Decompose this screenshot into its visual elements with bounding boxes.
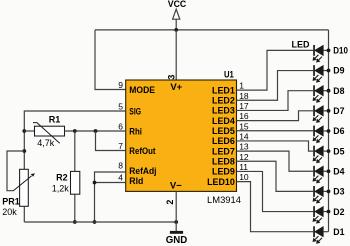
pin number 3	[167, 75, 177, 80]
IC left pin labels	[129, 85, 156, 186]
wire Rhi to RefOut (pin 7)	[96, 131, 126, 151]
wire LED anode rail	[328, 30, 330, 232]
wire LED4 pin 16 to D7	[237, 111, 314, 121]
label D1	[333, 227, 344, 237]
svg-text:D7: D7	[333, 106, 344, 116]
label PR1	[2, 197, 20, 207]
svg-text:Rld: Rld	[129, 176, 143, 186]
op-amp U1 LM3914 body	[126, 80, 237, 191]
svg-text:R2: R2	[56, 172, 68, 182]
svg-text:10: 10	[239, 172, 249, 182]
junction ground rail to V-	[174, 220, 178, 224]
svg-text:1: 1	[239, 81, 244, 91]
junction R2 to ground rail	[73, 220, 77, 224]
pin number 5	[118, 102, 123, 112]
svg-text:2: 2	[165, 200, 175, 205]
svg-text:Rhi: Rhi	[129, 126, 142, 136]
wire LED8 pin 12 to D3	[237, 161, 314, 191]
svg-text:13: 13	[239, 142, 249, 152]
svg-text:LED1: LED1	[212, 85, 235, 95]
resistor R2	[71, 171, 80, 194]
svg-text:D1: D1	[333, 227, 344, 237]
svg-text:8: 8	[118, 161, 123, 171]
svg-text:D9: D9	[333, 66, 344, 76]
svg-text:V+: V+	[170, 82, 182, 93]
label R1	[49, 114, 61, 124]
svg-text:16: 16	[239, 111, 249, 121]
junction SIG/R1 left	[22, 129, 26, 133]
svg-text:D8: D8	[333, 86, 344, 96]
svg-text:14: 14	[239, 131, 249, 141]
junction RefOut link	[94, 129, 98, 133]
IC label V-	[170, 181, 182, 192]
wire LED5 pin 15 to D6	[237, 130, 314, 132]
junction D9 anode to rail	[327, 69, 331, 73]
potentiometer PR1	[13, 169, 35, 206]
pin number 7	[118, 141, 123, 151]
junction VCC rail to V+	[174, 28, 178, 32]
pin number 6	[118, 122, 123, 132]
label U1	[224, 69, 234, 79]
VCC power symbol	[168, 0, 187, 30]
wire R1 right to Rhi (pin 6)	[65, 130, 126, 132]
wire LED3 pin 17 to D8	[237, 91, 314, 111]
wire LED6 pin 14 to D5	[237, 141, 314, 151]
junction R2 top	[73, 129, 77, 133]
svg-text:RefOut: RefOut	[129, 146, 155, 156]
svg-text:R1: R1	[49, 114, 61, 124]
junction D6 anode to rail	[327, 129, 331, 133]
wire LED10 pin 10 to D1	[237, 182, 314, 232]
svg-text:LED3: LED3	[212, 106, 235, 116]
svg-text:LM3914: LM3914	[207, 195, 241, 206]
junction D4 anode to rail	[327, 169, 331, 173]
svg-text:LED: LED	[292, 40, 311, 50]
svg-text:V−: V−	[170, 181, 182, 192]
wire PR1 bottom	[23, 206, 25, 222]
label D7	[333, 106, 344, 116]
wire LED9 pin 11 to D2	[237, 171, 314, 211]
svg-text:6: 6	[118, 122, 123, 132]
svg-text:LED4: LED4	[212, 116, 235, 126]
pin number 9	[118, 80, 123, 90]
svg-text:VCC: VCC	[168, 0, 187, 9]
junction D7 anode to rail	[327, 109, 331, 113]
svg-text:D10: D10	[333, 46, 348, 56]
junction D5 anode to rail	[327, 149, 331, 153]
junction D8 anode to rail	[327, 89, 331, 93]
wire RefAdj (pin 8) to ground column	[95, 172, 126, 222]
label D8	[333, 86, 344, 96]
label 4,7k	[37, 138, 55, 148]
pin number 4	[118, 173, 123, 183]
label D4	[333, 166, 344, 176]
label LED	[292, 40, 311, 50]
wire VCC rail	[95, 29, 329, 31]
wire Rld (pin 4)	[95, 182, 126, 184]
LED D5	[313, 146, 329, 164]
label D2	[333, 207, 344, 217]
label D6	[333, 126, 344, 136]
junction RefAdj column to ground rail	[93, 220, 97, 224]
LED D3	[313, 186, 329, 204]
wire LED7 pin 13 to D4	[237, 151, 314, 171]
svg-text:LED10: LED10	[207, 177, 235, 187]
svg-text:PR1: PR1	[2, 197, 20, 207]
svg-text:LED6: LED6	[212, 136, 235, 146]
wire PR1 wiper	[7, 151, 24, 191]
LED D10	[313, 45, 329, 63]
svg-text:GND: GND	[166, 235, 188, 246]
svg-text:20k: 20k	[2, 207, 17, 217]
svg-text:12: 12	[239, 152, 249, 162]
svg-text:15: 15	[239, 121, 249, 131]
svg-text:18: 18	[239, 91, 249, 101]
svg-text:LED9: LED9	[212, 167, 235, 177]
wire LED2 pin 18 to D9	[237, 71, 314, 101]
LED D7	[313, 105, 329, 123]
label D3	[333, 187, 344, 197]
wire MODE (pin 9) to VCC rail	[95, 30, 126, 90]
svg-text:3: 3	[167, 75, 177, 80]
label D5	[333, 146, 344, 156]
svg-text:9: 9	[118, 80, 123, 90]
svg-text:D3: D3	[333, 187, 344, 197]
wire R1 left	[24, 130, 34, 132]
wire LED1 pin 1 to D10	[237, 50, 314, 90]
label 20k	[2, 207, 17, 217]
svg-text:U1: U1	[224, 69, 234, 79]
svg-text:D4: D4	[333, 166, 344, 176]
svg-text:LED8: LED8	[212, 156, 235, 166]
svg-text:11: 11	[239, 162, 248, 172]
LED D1	[313, 226, 329, 244]
LED D6	[313, 126, 329, 144]
svg-text:1,2k: 1,2k	[52, 184, 70, 194]
junction D2 anode to rail	[327, 210, 331, 214]
junction Rld	[93, 181, 97, 185]
LED D4	[313, 166, 329, 184]
svg-text:4: 4	[118, 173, 123, 183]
pin number 8	[118, 161, 123, 171]
svg-text:RefAdj: RefAdj	[129, 166, 156, 176]
label R2	[56, 172, 68, 182]
IC right pin labels LED1-LED10	[207, 85, 235, 187]
IC label V+	[170, 82, 182, 93]
label D9	[333, 66, 344, 76]
wire R2 bottom	[74, 194, 76, 222]
svg-text:MODE: MODE	[129, 85, 155, 95]
svg-text:4,7k: 4,7k	[37, 138, 55, 148]
svg-text:7: 7	[118, 141, 123, 151]
svg-text:D2: D2	[333, 207, 344, 217]
wire V+ (pin 3)	[175, 30, 177, 80]
right pin numbers	[239, 81, 249, 183]
wire V- (pin 2)	[175, 191, 177, 231]
svg-text:17: 17	[239, 101, 249, 111]
junction D3 anode to rail	[327, 190, 331, 194]
ground	[166, 231, 188, 246]
resistor R1 (adjustable)	[33, 123, 65, 144]
svg-text:D5: D5	[333, 146, 344, 156]
junction D10 anode to rail	[327, 49, 331, 53]
junction SIG/wiper	[22, 149, 26, 153]
LED D9	[313, 65, 329, 83]
label D10	[333, 46, 348, 56]
svg-text:5: 5	[118, 102, 123, 112]
svg-text:SIG: SIG	[129, 106, 141, 116]
label 1,2k	[52, 184, 70, 194]
wire SIG (pin 5) net	[24, 111, 125, 169]
svg-text:LED2: LED2	[212, 95, 235, 105]
svg-text:LED7: LED7	[212, 146, 235, 156]
svg-text:D6: D6	[333, 126, 344, 136]
wire ground rail	[24, 221, 176, 223]
LED D8	[313, 85, 329, 103]
wire R2 top	[74, 131, 76, 171]
svg-text:LED5: LED5	[212, 126, 235, 136]
LED D2	[313, 206, 329, 224]
pin number 2	[165, 200, 175, 205]
label LM3914	[207, 195, 241, 206]
